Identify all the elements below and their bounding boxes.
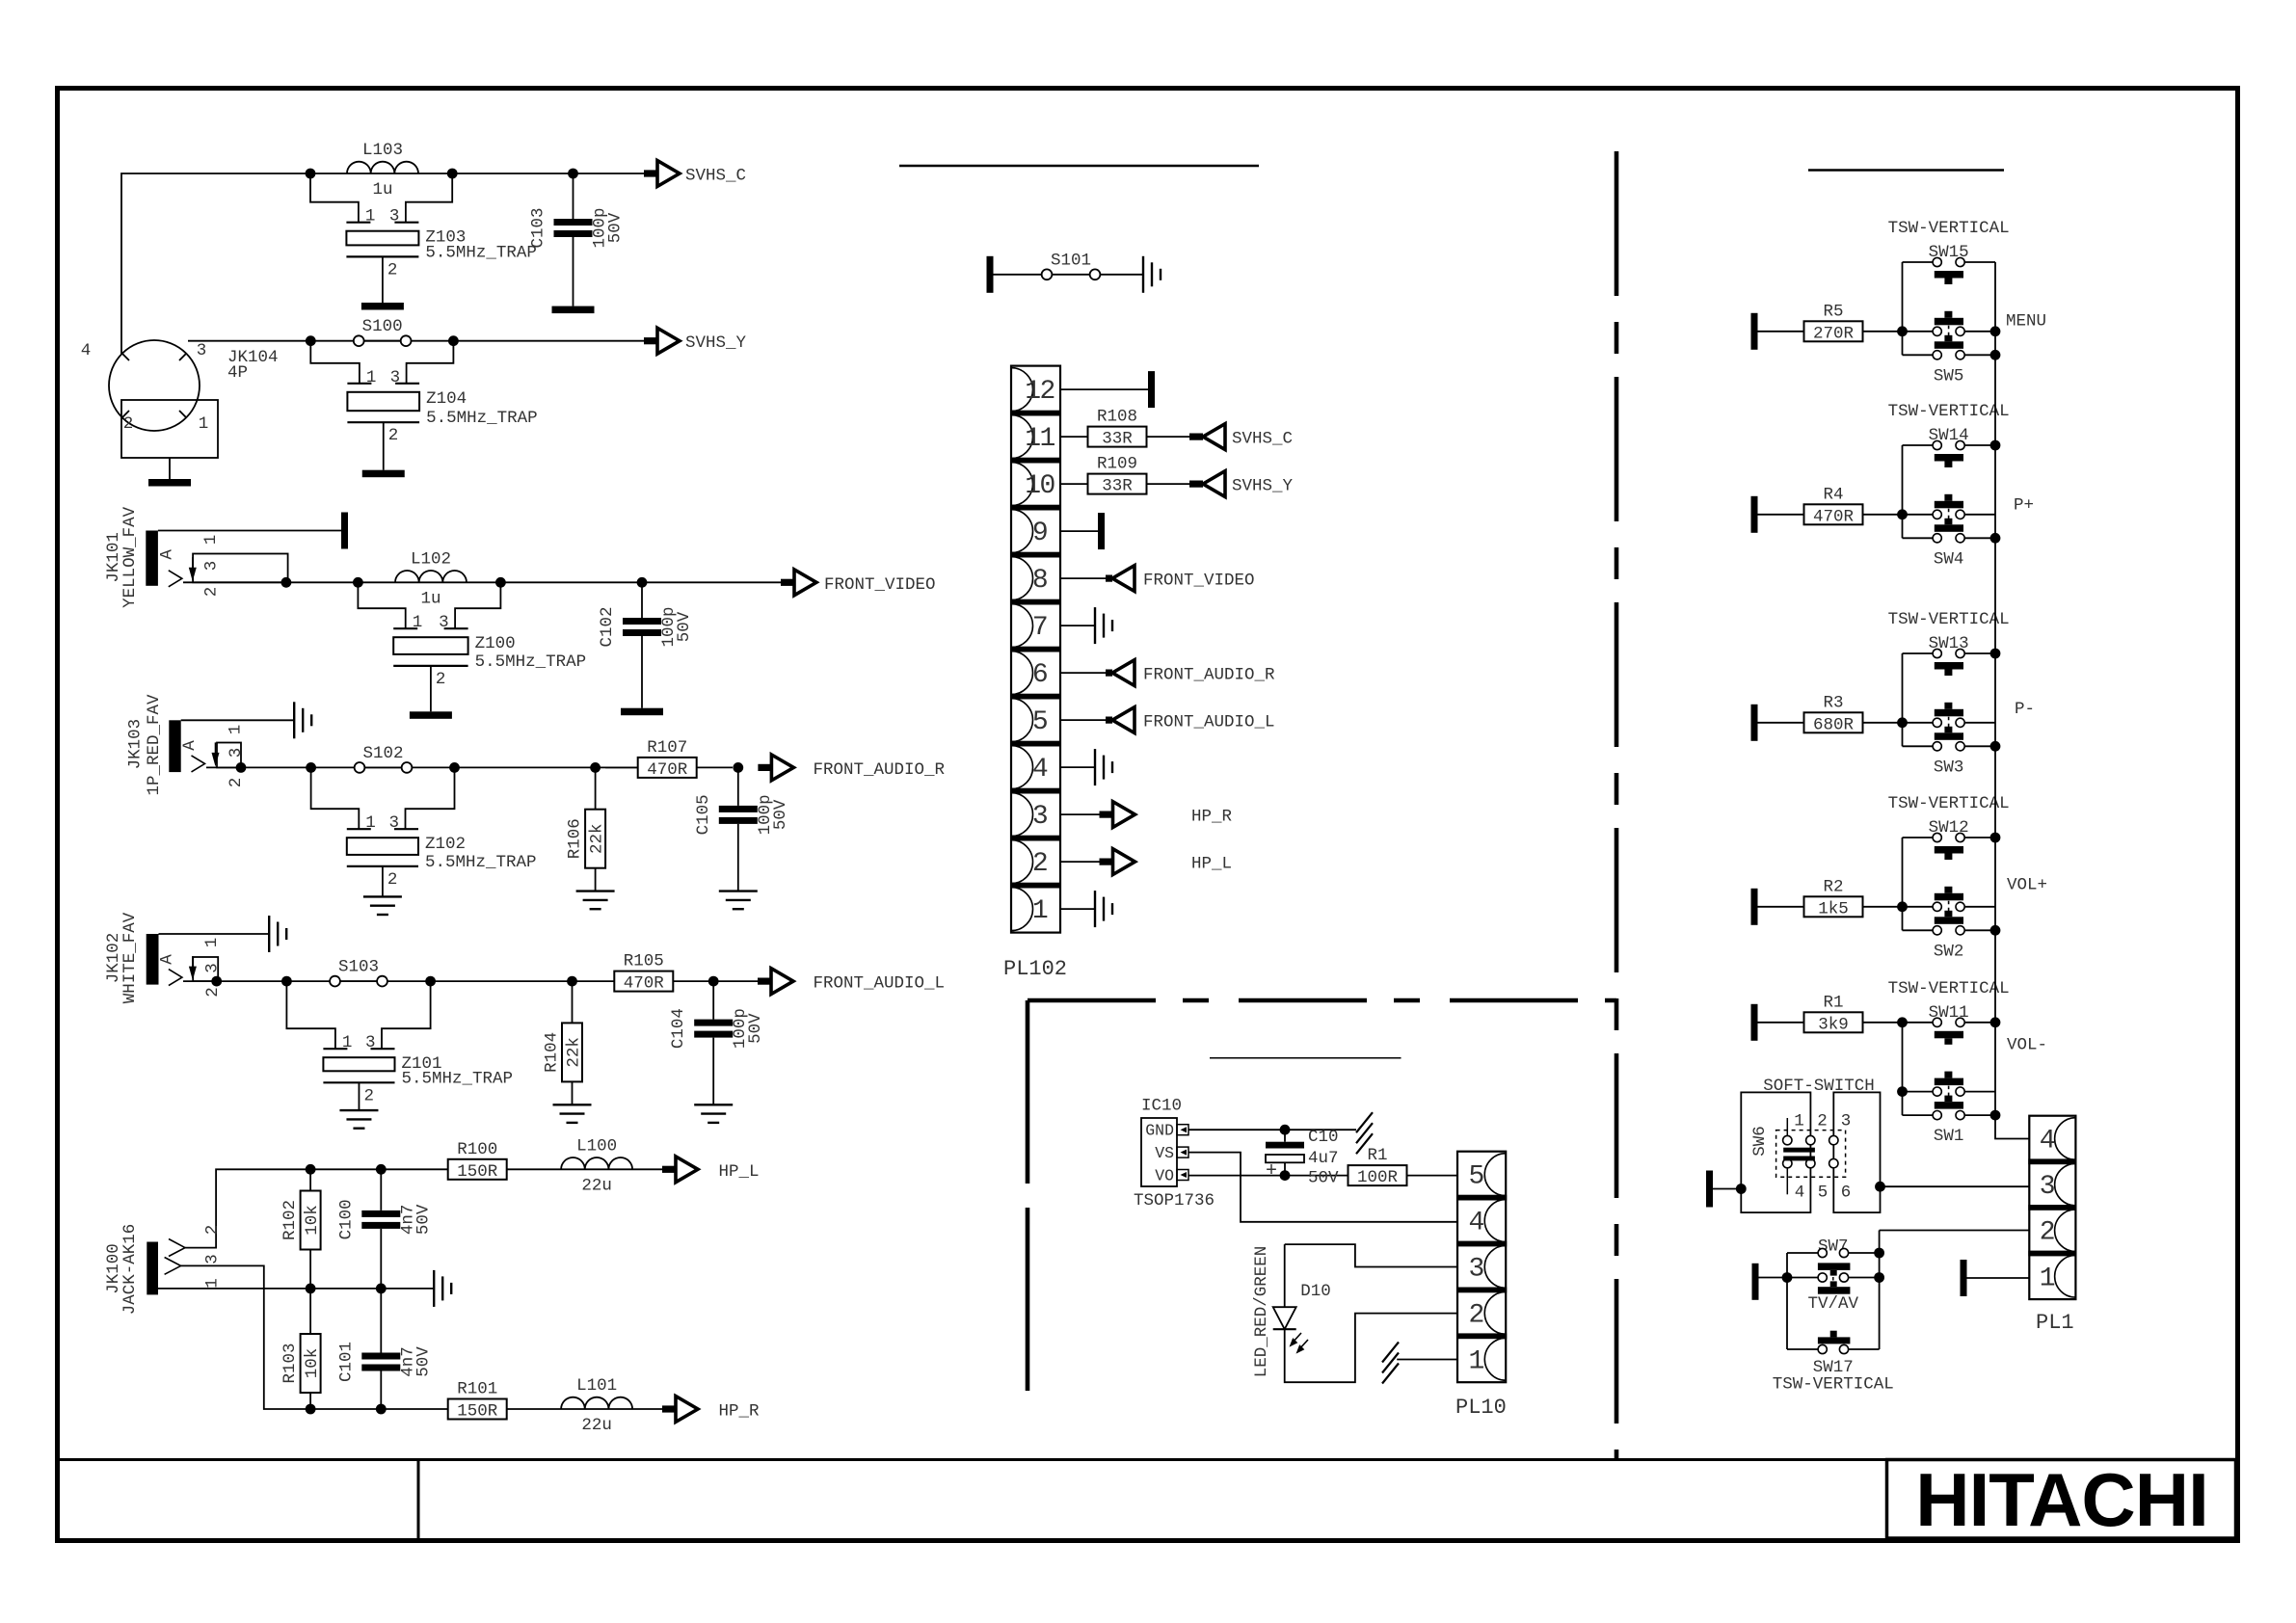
resistor R106 leads [595, 767, 597, 809]
jack JK100 pin 2 contact [169, 1239, 185, 1257]
svg-text:1: 1 [1032, 896, 1048, 926]
svg-text:5.5MHz_TRAP: 5.5MHz_TRAP [425, 853, 537, 872]
junction rail SW3 [1990, 741, 2001, 752]
svg-text:2: 2 [227, 778, 246, 788]
switch coupler dashes [1948, 717, 1950, 728]
wire SW6 stub [1713, 1188, 1741, 1190]
jack JK100 pin 3 contact [165, 1258, 181, 1275]
switch coupler dashes [1948, 509, 1950, 519]
capacitor C10 [1284, 1130, 1286, 1142]
output arrow HP_L at PL102 [1100, 859, 1112, 865]
junction [590, 762, 601, 773]
capacitor C101 leads [380, 1289, 382, 1353]
resistor R103 [301, 1334, 321, 1393]
svg-text:22k: 22k [588, 823, 607, 854]
svg-text:R100: R100 [457, 1140, 497, 1159]
wire SVHS_Y net [188, 340, 645, 342]
svg-text:2: 2 [363, 1086, 374, 1105]
junction [567, 976, 577, 987]
capacitor C104 lead [712, 981, 714, 1020]
svg-text:2: 2 [202, 587, 222, 598]
svg-text:2: 2 [387, 260, 398, 279]
wire SW7 right vertical [1879, 1231, 1881, 1350]
trap Z104 pin 2 [383, 422, 385, 470]
svg-text:2: 2 [1468, 1300, 1482, 1330]
svg-text:JK103: JK103 [126, 719, 146, 770]
output arrow SVHS_Y [644, 337, 656, 344]
ground at PL102 pin 1 [1095, 891, 1112, 927]
jack JK101 pin 3 contact box [193, 554, 288, 583]
resistor R104 [562, 1023, 582, 1081]
junction [306, 1284, 316, 1294]
net stub at R5 [1751, 313, 1758, 350]
wire switch left vertical [1902, 262, 1904, 355]
svg-text:3: 3 [197, 341, 207, 360]
svg-text:9: 9 [1032, 519, 1047, 548]
svg-text:R109: R109 [1097, 455, 1137, 474]
svg-text:R106: R106 [566, 818, 585, 859]
output arrow HP_R [662, 1405, 675, 1412]
svg-text:R103: R103 [280, 1343, 300, 1383]
jack JK100 body [147, 1242, 158, 1295]
junction SW7 mid left [1782, 1272, 1793, 1283]
net stub at SW7 [1752, 1264, 1759, 1300]
HITACHI logo box [1887, 1460, 2236, 1539]
title block divider [417, 1461, 420, 1538]
capacitor C101 [361, 1353, 400, 1360]
junction rail SW1 [1990, 1110, 2001, 1121]
capacitor C100 [361, 1211, 400, 1217]
trap Z100 body [393, 637, 467, 654]
resistor R5 [1804, 321, 1863, 341]
capacitor C103 lead [573, 173, 574, 219]
svg-text:C104: C104 [669, 1008, 688, 1049]
switch SW7 contacts [1818, 1248, 1827, 1257]
svg-text:3: 3 [1468, 1254, 1483, 1284]
svg-text:SW2: SW2 [1934, 942, 1964, 961]
svg-text:3: 3 [1032, 802, 1048, 832]
svg-text:SVHS_Y: SVHS_Y [1232, 477, 1294, 496]
jack JK103 pin 3 contact box [217, 743, 241, 768]
svg-text:SW5: SW5 [1934, 366, 1964, 386]
wire rail to PL1 pin 4 [1995, 1115, 2029, 1138]
resistor R101 [448, 1399, 507, 1420]
svg-text:3: 3 [1841, 1111, 1852, 1131]
resistor R1 [1348, 1165, 1407, 1185]
svg-text:R102: R102 [280, 1200, 300, 1240]
input arrow FRONT_AUDIO_L [1106, 717, 1112, 724]
wire R2 left lead [1758, 906, 1805, 908]
ground at PL102 pin 4 [1095, 749, 1112, 785]
svg-text:+: + [1266, 1160, 1277, 1183]
switch SW3 actuator [1944, 727, 1952, 733]
switch SW6 contacts [1783, 1135, 1792, 1144]
svg-text:Z104: Z104 [426, 389, 467, 409]
svg-text:SW3: SW3 [1934, 758, 1964, 777]
ground for JK104 [148, 479, 191, 487]
wire FRONT_AUDIO_R net [206, 766, 733, 768]
wire SW7 left vertical [1786, 1253, 1788, 1349]
svg-text:4: 4 [81, 341, 92, 360]
switch SW17 actuator [1830, 1331, 1837, 1338]
svg-text:33R: 33R [1102, 430, 1133, 449]
wire SVHS_C net [121, 173, 645, 355]
junction [1280, 1170, 1291, 1181]
capacitor C102 lead [641, 582, 643, 618]
svg-text:FRONT_AUDIO_R: FRONT_AUDIO_R [1143, 666, 1275, 685]
svg-text:A: A [158, 954, 177, 965]
wire PL102 pin 11 [1060, 436, 1087, 438]
svg-text:3: 3 [390, 368, 401, 387]
switch SW6 right loop [1833, 1092, 1880, 1212]
ground at JK102 pin 1 [269, 916, 286, 952]
input arrow FRONT_VIDEO [1106, 575, 1112, 582]
svg-text:TV/AV: TV/AV [1808, 1294, 1859, 1314]
IC10 pin VO [1177, 1170, 1188, 1181]
trap Z102 body [347, 838, 418, 855]
svg-text:2: 2 [123, 414, 134, 434]
net stub at R4 [1751, 496, 1758, 533]
junction R2 to SW12 [1897, 901, 1908, 912]
junction [281, 976, 292, 987]
capacitor C105 lower lead [737, 824, 739, 891]
svg-text:10: 10 [1025, 471, 1055, 501]
junction [449, 762, 460, 773]
jack JK100 pin 1 wire [158, 1288, 434, 1290]
resistor R104 leads [572, 981, 574, 1023]
svg-text:3: 3 [227, 748, 246, 758]
wire switch left vertical [1902, 653, 1904, 746]
svg-text:VO: VO [1155, 1167, 1174, 1185]
svg-text:6: 6 [1032, 660, 1047, 690]
svg-text:JACK-AK16: JACK-AK16 [120, 1224, 140, 1316]
svg-text:VOL+: VOL+ [2007, 876, 2047, 895]
svg-text:5: 5 [1468, 1162, 1483, 1192]
section underline (switch block title) [1808, 169, 2004, 172]
resistor R4 [1804, 504, 1863, 524]
svg-text:C101: C101 [336, 1342, 356, 1382]
svg-text:C10: C10 [1308, 1128, 1339, 1147]
svg-text:HP_R: HP_R [1191, 808, 1233, 827]
jack JK103 pin 1 wire [181, 719, 295, 721]
trap Z101 pin 2 [358, 1082, 360, 1110]
junction [306, 1404, 316, 1415]
junction R1 to SW11 [1897, 1017, 1908, 1027]
capacitor C104 [694, 1020, 733, 1026]
switch SW2 actuator [1944, 911, 1952, 918]
svg-text:10k: 10k [303, 1348, 322, 1379]
svg-text:FRONT_VIDEO: FRONT_VIDEO [1143, 572, 1255, 591]
ground at S101 [1143, 256, 1161, 293]
resistor R103 leads [309, 1289, 311, 1334]
svg-text:470R: 470R [647, 760, 688, 780]
svg-text:LED_RED/GREEN: LED_RED/GREEN [1252, 1246, 1271, 1378]
wire PL102 pin 8 [1060, 577, 1106, 579]
svg-text:1: 1 [199, 414, 209, 434]
chassis ground at PL10 pin 1 [1382, 1343, 1399, 1384]
junction [495, 577, 506, 588]
svg-text:FRONT_VIDEO: FRONT_VIDEO [824, 575, 936, 595]
svg-text:5.5MHz_TRAP: 5.5MHz_TRAP [475, 652, 587, 672]
ground for Z100 [410, 711, 452, 719]
svg-text:SW6: SW6 [1750, 1126, 1770, 1157]
wire PL1 pin 1 [1967, 1277, 2030, 1279]
resistor R102 [301, 1191, 321, 1250]
svg-text:2: 2 [1817, 1111, 1828, 1131]
svg-text:2: 2 [436, 670, 446, 689]
trap Z101 pins [286, 981, 335, 1049]
svg-text:HP_R: HP_R [719, 1402, 761, 1422]
svg-text:5.5MHz_TRAP: 5.5MHz_TRAP [426, 409, 538, 428]
net stub at JK101 pin 1 [341, 513, 348, 549]
svg-text:2: 2 [203, 987, 223, 998]
svg-text:50V: 50V [414, 1204, 433, 1235]
ground for Z104 [362, 470, 405, 478]
trap Z104 pins [310, 341, 360, 384]
svg-text:1u: 1u [420, 589, 441, 608]
svg-text:Z100: Z100 [475, 634, 516, 653]
wire PL102 pin 3 [1060, 813, 1112, 815]
svg-text:SW1: SW1 [1934, 1127, 1964, 1146]
junction [637, 577, 648, 588]
wire switch left vertical [1902, 445, 1904, 538]
svg-text:TSW-VERTICAL: TSW-VERTICAL [1888, 610, 2010, 629]
svg-text:PL1: PL1 [2036, 1311, 2074, 1335]
net stub at R1 [1751, 1004, 1758, 1041]
remote block boundary dash top [1028, 998, 1616, 1003]
junction rail SW11 top [1990, 1017, 2001, 1027]
junction [733, 762, 743, 773]
wire PL10 pin 3 to D10 [1285, 1244, 1457, 1266]
switch SW13 actuator [1935, 662, 1963, 670]
ground for Z103 [361, 303, 404, 310]
svg-text:R4: R4 [1823, 485, 1843, 504]
junction [306, 169, 316, 179]
section underline (remote block title) [1210, 1057, 1402, 1059]
svg-text:100R: 100R [1357, 1168, 1399, 1187]
switch SW15 contacts [1933, 257, 1941, 266]
junction [306, 762, 316, 773]
trap Z103 body [346, 231, 418, 246]
wire PL10 pin 1 [1397, 1359, 1457, 1361]
switch coupler dashes [1948, 326, 1950, 336]
svg-text:680R: 680R [1813, 715, 1855, 734]
svg-text:50V: 50V [414, 1346, 433, 1377]
wire PL102 pin 9 [1060, 530, 1098, 532]
svg-text:3: 3 [439, 613, 449, 632]
switch SW6 dashed body [1776, 1131, 1846, 1178]
switch SW6 pin stubs [1786, 1118, 1788, 1135]
svg-text:1: 1 [365, 813, 376, 833]
wire R3 right lead [1863, 722, 1903, 724]
svg-text:1u: 1u [372, 180, 392, 200]
jack JK102 pin 3 contact box [193, 957, 218, 981]
capacitor C105 lead [737, 767, 739, 806]
junction R5 to SW15 [1897, 326, 1908, 336]
op-amp U IC10 body [1141, 1118, 1177, 1186]
svg-text:HP_L: HP_L [1191, 855, 1232, 874]
jack JK102 pin 1 wire [159, 933, 270, 935]
input arrow SVHS_Y [1189, 481, 1203, 488]
junction rail SW4 [1990, 533, 2001, 544]
svg-text:R1: R1 [1823, 993, 1843, 1012]
svg-text:2: 2 [203, 1225, 223, 1236]
junction SW7 top right [1874, 1248, 1884, 1259]
svg-text:GND: GND [1145, 1122, 1174, 1140]
switch SW11 actuator [1935, 1031, 1963, 1039]
svg-text:50V: 50V [606, 212, 626, 243]
svg-text:5.5MHz_TRAP: 5.5MHz_TRAP [425, 243, 537, 262]
capacitor C104 lower lead [712, 1038, 714, 1105]
resistor R108 [1088, 427, 1147, 447]
svg-text:22u: 22u [581, 1176, 612, 1195]
wire PL102 pin 7 [1060, 625, 1095, 626]
svg-text:R101: R101 [457, 1380, 497, 1399]
svg-text:TSW-VERTICAL: TSW-VERTICAL [1888, 402, 2010, 421]
ground for C102 [621, 708, 663, 716]
svg-text:FRONT_AUDIO_L: FRONT_AUDIO_L [814, 974, 946, 994]
trap Z100 pin 2 [430, 666, 432, 711]
svg-text:4P: 4P [227, 363, 248, 383]
ground for Z102 [363, 896, 402, 915]
svg-text:L103: L103 [362, 141, 403, 160]
wire switch left vertical [1902, 1023, 1904, 1115]
input arrow SVHS_C [1189, 434, 1203, 440]
wire S101 right [1100, 274, 1143, 276]
svg-text:SVHS_Y: SVHS_Y [685, 333, 747, 353]
junction rail SW12 top [1990, 833, 2001, 843]
svg-text:D10: D10 [1300, 1282, 1331, 1301]
svg-text:S100: S100 [362, 317, 403, 336]
trap Z103 pin 2 [382, 256, 384, 303]
svg-text:HP_L: HP_L [719, 1162, 760, 1182]
svg-text:S102: S102 [362, 744, 403, 763]
switch SW4 actuator [1944, 519, 1952, 525]
svg-text:C103: C103 [529, 207, 548, 248]
switch SW17 contacts [1818, 1344, 1827, 1353]
svg-text:2: 2 [388, 426, 399, 445]
capacitor C102 [623, 618, 661, 625]
output arrow FRONT_VIDEO [781, 579, 793, 586]
switch SW12 contacts [1933, 833, 1941, 841]
trap Z102 pins [311, 767, 360, 829]
svg-text:3k9: 3k9 [1818, 1015, 1849, 1034]
switch coupler dashes [1948, 1086, 1950, 1097]
svg-text:1: 1 [366, 368, 377, 387]
svg-text:R3: R3 [1823, 693, 1843, 712]
junction [353, 577, 363, 588]
jack JK104 ground stem [169, 458, 171, 479]
jack JK101 pin 1 wire [158, 530, 341, 532]
output arrow FRONT_AUDIO_L [758, 978, 770, 985]
wire PL102 pin 5 [1060, 719, 1106, 721]
wire key matrix right rail [1994, 262, 1996, 1115]
IC10 pin VS [1177, 1147, 1188, 1157]
jumper S103 [330, 976, 340, 987]
svg-text:1: 1 [2040, 1264, 2055, 1293]
wire D10 to PL10 pin 2 [1285, 1314, 1457, 1383]
svg-text:1: 1 [202, 938, 222, 948]
svg-text:C105: C105 [694, 794, 713, 835]
svg-text:50V: 50V [675, 611, 694, 642]
junction [281, 577, 292, 588]
wire PL102 pin 12 [1060, 388, 1148, 390]
net stub at S101 [987, 256, 994, 293]
svg-text:3: 3 [2040, 1172, 2055, 1202]
junction SW6 left [1736, 1184, 1747, 1194]
wire switch left vertical [1902, 838, 1904, 930]
svg-text:4: 4 [1795, 1184, 1805, 1203]
wire R4 left lead [1758, 514, 1805, 516]
svg-text:50V: 50V [1308, 1169, 1339, 1188]
svg-text:6: 6 [1841, 1184, 1852, 1203]
resistor R105 [614, 971, 673, 992]
svg-text:Z102: Z102 [425, 835, 466, 854]
svg-text:1: 1 [365, 207, 376, 226]
svg-text:R5: R5 [1823, 302, 1843, 321]
svg-text:4: 4 [1468, 1209, 1483, 1238]
LED D10 [1284, 1244, 1286, 1307]
ground at JK103 pin 1 [294, 702, 311, 738]
svg-text:2: 2 [2040, 1218, 2054, 1248]
svg-text:33R: 33R [1102, 477, 1133, 496]
ground for C103 [552, 306, 595, 314]
svg-text:1: 1 [413, 613, 423, 632]
svg-text:VS: VS [1155, 1144, 1174, 1162]
svg-text:C102: C102 [598, 606, 617, 647]
section underline (left block title) [899, 165, 1259, 168]
svg-text:22k: 22k [565, 1037, 584, 1068]
jumper S100 [354, 335, 364, 346]
wire SW7 stub [1759, 1277, 1788, 1279]
wire HP_R net [181, 1265, 663, 1409]
wire R3 left lead [1758, 722, 1805, 724]
svg-text:S103: S103 [338, 958, 379, 977]
inductor L101 [561, 1397, 632, 1409]
svg-text:3: 3 [203, 963, 223, 973]
junction R4 to SW14 [1897, 509, 1908, 519]
wire IC10 VS to PL10 pin 4 [1188, 1153, 1457, 1222]
net stub at SW6 [1706, 1171, 1713, 1208]
wire PL102 pin 4 [1060, 766, 1095, 768]
svg-text:C100: C100 [336, 1199, 356, 1239]
wire PL102 pin 1 [1060, 908, 1095, 910]
resistor R100 [448, 1159, 507, 1180]
title block top line [60, 1458, 2235, 1461]
svg-text:10k: 10k [303, 1205, 322, 1236]
resistor R3 [1804, 712, 1863, 732]
output arrow HP_R at PL102 [1100, 811, 1112, 818]
inductor L103 [347, 162, 418, 173]
junction [376, 1164, 387, 1175]
svg-text:1k5: 1k5 [1818, 899, 1849, 918]
junction rail SW13 top [1990, 649, 2001, 659]
jack JK101 body [146, 531, 158, 586]
connector PL102 [1011, 366, 1060, 933]
svg-text:50V: 50V [771, 799, 790, 830]
jack JK104 body [109, 340, 200, 431]
junction [376, 1404, 387, 1415]
svg-text:L101: L101 [576, 1376, 617, 1396]
junction [306, 335, 316, 346]
wire PL102 pin 2 [1060, 861, 1112, 863]
chassis ground at IC10 GND [1356, 1112, 1373, 1154]
svg-text:TSOP1736: TSOP1736 [1134, 1191, 1215, 1211]
svg-text:4: 4 [1032, 755, 1048, 785]
svg-text:3: 3 [203, 1254, 223, 1264]
wire R4 right lead [1863, 514, 1903, 516]
resistor R109 [1088, 474, 1147, 494]
